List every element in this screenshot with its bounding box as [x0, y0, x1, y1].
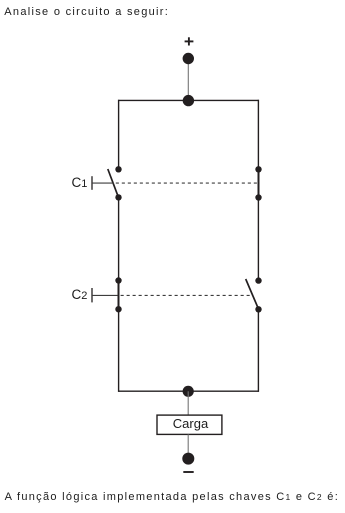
wire left branch lower	[118, 309, 120, 392]
actuator tick C2	[91, 288, 93, 302]
wire right branch lower	[257, 309, 259, 392]
wire junction to load	[187, 391, 189, 415]
node negative terminal	[182, 453, 194, 465]
node top junction	[183, 95, 194, 106]
actuator link C2 dashed	[121, 294, 252, 296]
switch C2 left (closed)	[115, 277, 121, 312]
label C2	[72, 288, 88, 303]
wire right branch upper	[257, 100, 259, 170]
wire right branch middle	[257, 198, 259, 281]
bottom question text	[5, 491, 340, 504]
minus supply symbol	[183, 471, 193, 473]
node positive terminal	[183, 53, 194, 64]
load label	[173, 417, 208, 430]
switch C1 right (closed)	[255, 166, 261, 201]
label C1	[72, 176, 88, 191]
wire left branch middle	[118, 197, 120, 280]
actuator link C1 solid	[92, 182, 114, 184]
actuator link C2 solid	[92, 294, 118, 296]
wire top rail	[119, 99, 259, 101]
wire load to negative terminal	[187, 434, 189, 452]
plus supply symbol	[185, 37, 194, 45]
switch C2 right (open)	[246, 277, 262, 312]
actuator link C1 dashed	[116, 182, 258, 184]
actuator tick C1	[91, 176, 93, 190]
title text	[4, 6, 169, 19]
wire bottom rail	[119, 390, 259, 392]
wire positive terminal to top rail	[187, 59, 189, 101]
node bottom junction	[183, 386, 194, 397]
switch C1 left (open)	[108, 166, 122, 200]
load box Carga	[157, 415, 222, 434]
wire left branch upper	[118, 100, 120, 170]
